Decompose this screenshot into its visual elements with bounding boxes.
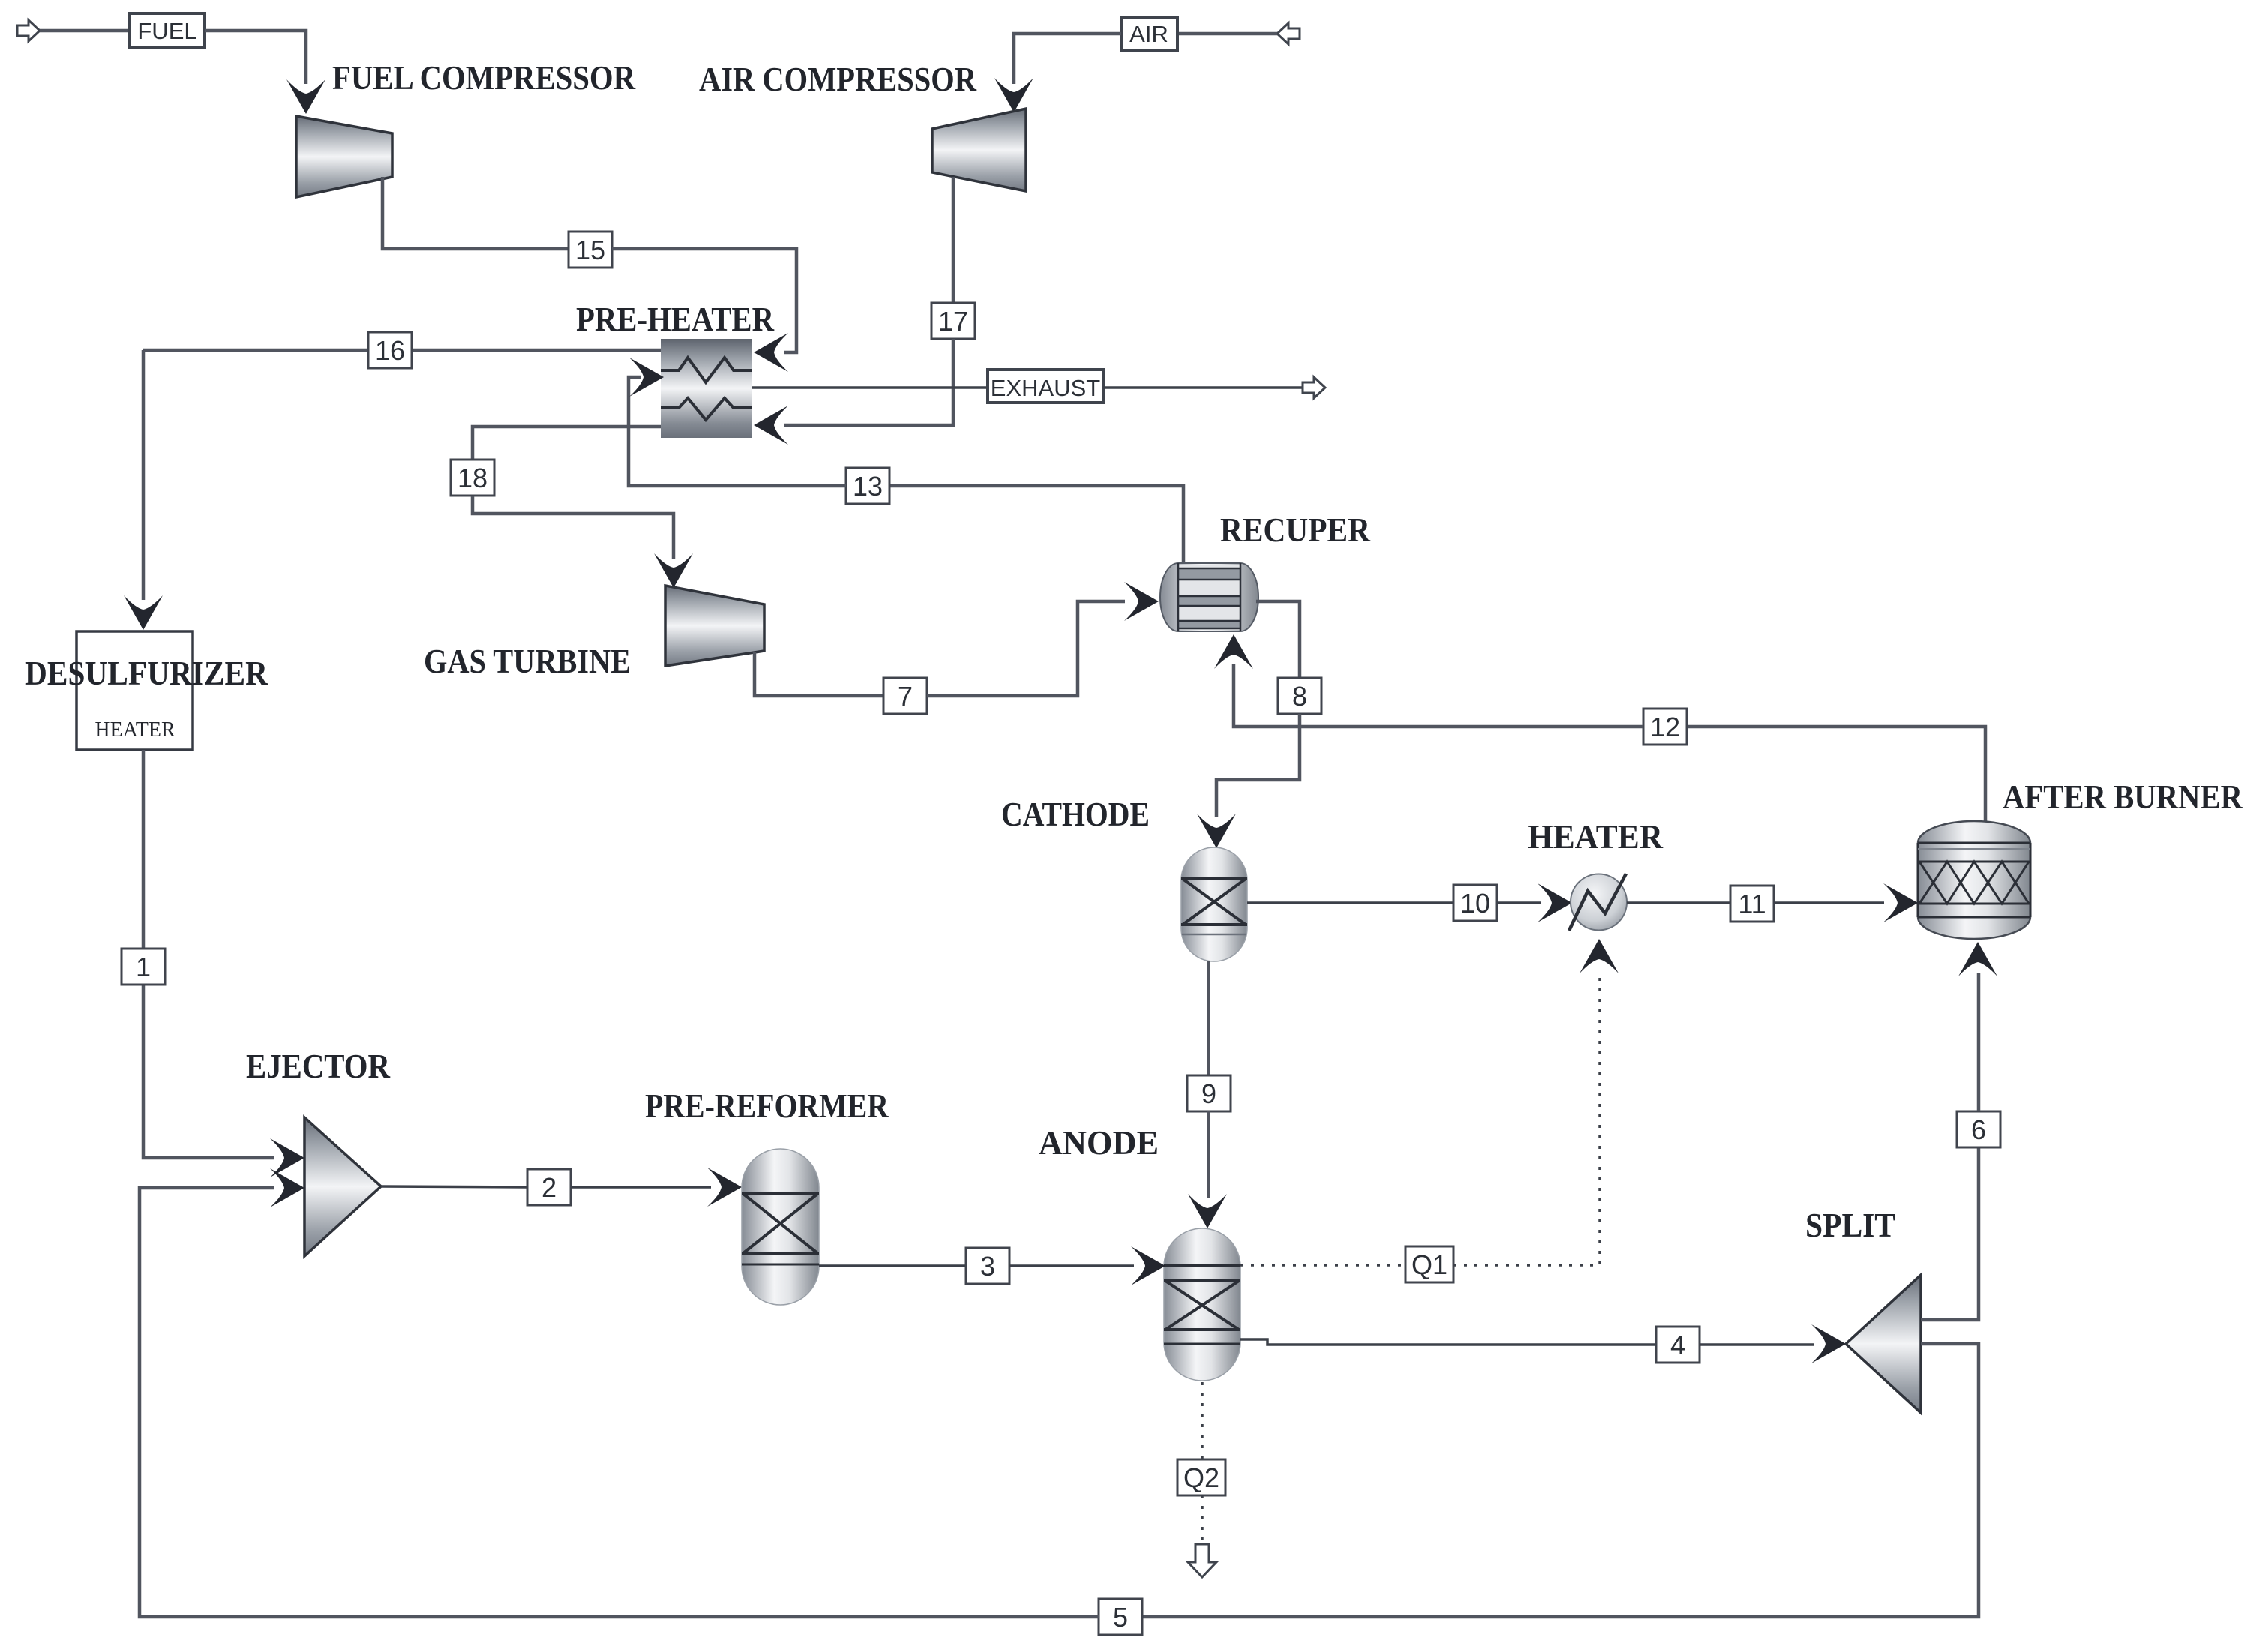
svg-text:3: 3 bbox=[980, 1251, 995, 1282]
svg-text:DESULFURIZER: DESULFURIZER bbox=[25, 654, 268, 692]
arrow stream 3 into anode bbox=[1131, 1246, 1165, 1285]
wire stream 13 recuperator to pre-heater bbox=[889, 486, 1183, 563]
arrow stream 15 into pre-heater bbox=[754, 333, 788, 372]
ejector EJECTOR bbox=[304, 1117, 381, 1256]
svg-text:AIR COMPRESSOR: AIR COMPRESSOR bbox=[699, 60, 977, 98]
wire stream 10 to heater inlet bbox=[1497, 901, 1541, 904]
wire stream 12 to recuperator bottom bbox=[1234, 664, 1643, 727]
wire EXHAUST line from pre-heater bbox=[752, 386, 988, 389]
svg-text:EXHAUST: EXHAUST bbox=[991, 375, 1100, 401]
wire stream 13 up into pre-heater left bbox=[628, 377, 846, 486]
svg-text:6: 6 bbox=[1971, 1114, 1986, 1145]
svg-text:PRE-HEATER: PRE-HEATER bbox=[576, 300, 775, 338]
wire stream 3 to anode inlet bbox=[1009, 1264, 1134, 1267]
svg-text:2: 2 bbox=[541, 1172, 556, 1203]
wire stream 9 cathode to anode bbox=[1207, 961, 1210, 1075]
node stream 2 label bbox=[527, 1169, 571, 1205]
arrow stream 4 into split bbox=[1811, 1324, 1846, 1363]
svg-text:13: 13 bbox=[853, 471, 883, 502]
svg-text:ANODE: ANODE bbox=[1039, 1123, 1159, 1162]
arrow stream 9 into anode bbox=[1188, 1194, 1227, 1228]
svg-text:EJECTOR: EJECTOR bbox=[246, 1047, 391, 1085]
arrow into fuel compressor bbox=[286, 79, 325, 114]
Q2 outlet open arrow down bbox=[1188, 1544, 1216, 1577]
node stream 8 label bbox=[1278, 678, 1321, 714]
wire stream 17 air compressor down bbox=[952, 177, 955, 303]
wire stream 10 cathode to heater bbox=[1247, 901, 1453, 904]
splitter SPLIT bbox=[1846, 1275, 1921, 1413]
wire EXHAUST box to outlet arrow bbox=[1103, 386, 1303, 389]
compressor AIR COMPRESSOR bbox=[932, 109, 1026, 191]
wire stream 1 desulfurizer to ejector bbox=[143, 750, 274, 1158]
arrow stream 13 into pre-heater bbox=[629, 358, 664, 397]
wire stream 2 ejector to pre-reformer bbox=[381, 1186, 527, 1187]
arrow stream 12 into recuperator bottom bbox=[1214, 634, 1253, 669]
wire AIR arrow to AIR box bbox=[1177, 32, 1277, 36]
wire stream 15 fuel compressor to pre-heater bbox=[382, 177, 568, 249]
AIR inlet open arrow bbox=[1277, 23, 1300, 44]
svg-text:9: 9 bbox=[1201, 1078, 1216, 1109]
node FUEL label box bbox=[130, 13, 205, 47]
turbine GAS TURBINE bbox=[665, 586, 764, 666]
svg-text:4: 4 bbox=[1670, 1330, 1685, 1360]
heat-exchanger PRE-HEATER bbox=[661, 339, 752, 438]
node stream 9 label bbox=[1187, 1075, 1231, 1111]
heater DESULFURIZER box bbox=[76, 631, 193, 750]
svg-text:Q2: Q2 bbox=[1183, 1462, 1219, 1493]
arrow stream 6 into after burner bottom bbox=[1958, 942, 1997, 976]
svg-text:12: 12 bbox=[1650, 712, 1680, 742]
wire stream 7 to recuperator inlet bbox=[927, 601, 1125, 696]
svg-text:16: 16 bbox=[375, 335, 405, 366]
node stream 12 label bbox=[1643, 709, 1687, 745]
node stream 16 label bbox=[368, 332, 412, 368]
wire stream 6 up to after burner bottom bbox=[1977, 973, 1981, 1111]
arrow into desulfurizer bbox=[124, 595, 163, 630]
wire stream 4 anode to split bbox=[1240, 1339, 1656, 1345]
EXHAUST outlet open arrow bbox=[1303, 377, 1325, 398]
svg-text:HEATER: HEATER bbox=[94, 718, 175, 742]
wire Q2 dotted anode bottom bbox=[1201, 1382, 1204, 1459]
wire FUEL box to fuel compressor bbox=[205, 31, 306, 84]
arrow into air compressor bbox=[994, 78, 1033, 112]
arrow stream 2 into pre-reformer bbox=[707, 1168, 742, 1207]
node stream 13 label bbox=[846, 468, 889, 504]
wire stream 17 to pre-heater lower right bbox=[784, 339, 953, 425]
svg-text:FUEL: FUEL bbox=[137, 18, 196, 44]
arrow Q1 into heater bottom bbox=[1579, 939, 1618, 973]
wire Q1 dotted anode to heater bbox=[1240, 1264, 1405, 1267]
burner AFTER BURNER bbox=[1918, 821, 2030, 939]
wire AIR box to air compressor bbox=[1014, 34, 1121, 84]
arrow into gas turbine bbox=[654, 553, 693, 588]
node EXHAUST label box bbox=[988, 370, 1103, 403]
wire stream 5 split to ejector bbox=[1142, 1344, 1978, 1617]
wire stream 11 heater to after burner bbox=[1627, 901, 1730, 904]
svg-text:11: 11 bbox=[1738, 889, 1765, 919]
wire stream 3 pre-reformer to anode bbox=[819, 1264, 966, 1267]
FUEL inlet open arrow bbox=[17, 20, 40, 41]
svg-text:10: 10 bbox=[1460, 888, 1490, 919]
svg-text:AIR: AIR bbox=[1129, 21, 1168, 47]
arrow stream 10 into heater bbox=[1537, 883, 1572, 922]
svg-text:1: 1 bbox=[136, 952, 151, 982]
node stream 18 label bbox=[451, 460, 494, 496]
svg-text:7: 7 bbox=[898, 681, 913, 712]
wire fuel inlet to FUEL box bbox=[40, 29, 130, 33]
node Q2 label bbox=[1177, 1459, 1225, 1495]
reactor CATHODE bbox=[1181, 847, 1247, 961]
svg-text:8: 8 bbox=[1292, 681, 1307, 712]
svg-text:18: 18 bbox=[457, 463, 487, 493]
wire stream 15 continues to pre-heater top right bbox=[612, 249, 796, 352]
wire Q1 dotted up to heater bottom bbox=[1453, 971, 1600, 1265]
node stream 4 label bbox=[1656, 1327, 1699, 1363]
svg-text:RECUPER: RECUPER bbox=[1220, 511, 1371, 549]
arrow stream 17 into pre-heater bbox=[754, 406, 788, 445]
svg-text:HEATER: HEATER bbox=[1528, 817, 1663, 856]
wire stream 2 to pre-reformer inlet bbox=[571, 1186, 711, 1189]
svg-text:17: 17 bbox=[938, 306, 968, 337]
wire stream 5 left and up to ejector bbox=[139, 1188, 1099, 1617]
node Q1 label bbox=[1405, 1246, 1453, 1282]
wire stream 16 pre-heater to desulfurizer bbox=[143, 349, 661, 352]
wire stream 8 down and into cathode bbox=[1216, 714, 1300, 817]
svg-text:CATHODE: CATHODE bbox=[1001, 795, 1150, 833]
heater HEATER circle bbox=[1569, 874, 1627, 931]
node stream 3 label bbox=[966, 1248, 1009, 1284]
arrow stream 7 into recuperator bbox=[1124, 582, 1159, 621]
svg-text:Q1: Q1 bbox=[1411, 1249, 1447, 1280]
heat-exchanger RECUPER bbox=[1160, 563, 1258, 631]
wire Q2 dotted down to outlet bbox=[1201, 1495, 1204, 1551]
wire stream 18 to turbine inlet bbox=[472, 496, 673, 559]
wire stream 8 recuperator to cathode bbox=[1256, 601, 1300, 678]
reactor PRE-REFORMER bbox=[742, 1149, 819, 1305]
wire stream 16 down to desulfurizer bbox=[142, 350, 145, 600]
svg-text:AFTER BURNER: AFTER BURNER bbox=[2002, 778, 2243, 816]
wire stream 6 split to after burner bbox=[1921, 1147, 1978, 1320]
node stream 17 label bbox=[931, 303, 975, 339]
wire stream 11 to after burner inlet bbox=[1774, 901, 1884, 904]
wire stream 18 pre-heater to gas turbine bbox=[472, 427, 661, 460]
svg-text:SPLIT: SPLIT bbox=[1805, 1206, 1895, 1244]
compressor FUEL COMPRESSOR bbox=[296, 116, 392, 197]
wire stream 12 after burner to recuperator bbox=[1687, 727, 1985, 821]
svg-text:15: 15 bbox=[575, 235, 605, 265]
svg-text:GAS TURBINE: GAS TURBINE bbox=[424, 642, 631, 680]
node stream 7 label bbox=[883, 678, 927, 714]
wire stream 4 to split inlet bbox=[1699, 1343, 1813, 1346]
node stream 1 label bbox=[121, 949, 165, 985]
wire stream 9 down to anode bbox=[1207, 1111, 1210, 1198]
node stream 11 label bbox=[1730, 886, 1774, 922]
svg-text:PRE-REFORMER: PRE-REFORMER bbox=[645, 1087, 889, 1125]
svg-text:5: 5 bbox=[1113, 1602, 1128, 1633]
wire stream 7 turbine to recuperator bbox=[754, 652, 883, 696]
arrow stream 8 into cathode bbox=[1197, 814, 1236, 848]
arrow stream 1 into ejector bbox=[270, 1138, 304, 1177]
node stream 15 label bbox=[568, 232, 612, 268]
node stream 5 label bbox=[1099, 1599, 1142, 1635]
arrow stream 5 into ejector bbox=[270, 1168, 304, 1207]
svg-text:FUEL COMPRESSOR: FUEL COMPRESSOR bbox=[332, 58, 636, 97]
arrow stream 11 into after burner bbox=[1883, 883, 1918, 922]
node AIR label box bbox=[1121, 17, 1177, 50]
reactor ANODE bbox=[1164, 1228, 1240, 1381]
node stream 10 label bbox=[1453, 885, 1497, 921]
node stream 6 label bbox=[1957, 1111, 2000, 1147]
